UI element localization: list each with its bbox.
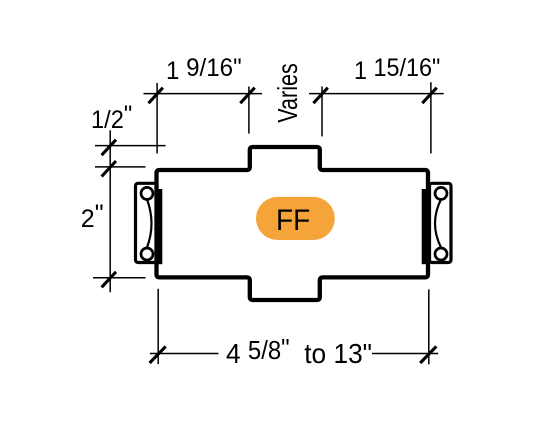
right clip bottom roller (435, 248, 447, 260)
tick mark (240, 88, 254, 104)
tick mark (102, 161, 116, 177)
label: 2" (81, 205, 104, 234)
label: 1 15/16" (354, 57, 440, 86)
wire: extension line right of 1 9/16" (248, 87, 250, 134)
FF highlight pill (256, 197, 335, 240)
right clip bracket outline (430, 183, 452, 262)
tick mark (102, 272, 116, 288)
wire: extension line at body top level (95, 166, 146, 168)
tick mark (149, 88, 163, 104)
tick mark (420, 346, 436, 363)
label: FF (276, 204, 310, 238)
wire: extension line left of 1 15/16" (321, 87, 323, 137)
label: 1 9/16" (166, 57, 242, 86)
left clip top roller (141, 187, 153, 199)
wire: top dimension line for 1 15/16" (309, 93, 444, 95)
wire: bottom left extension line (157, 289, 159, 364)
tick mark (102, 140, 116, 156)
part outline: cross-shaped mounting body (157, 147, 429, 300)
left clip bottom roller (141, 248, 153, 260)
label: Varies (rotated) (272, 63, 304, 123)
tick mark (422, 88, 436, 104)
wire: bottom dimension line right segment (372, 353, 438, 355)
left clip bracket outline (136, 183, 158, 262)
right clip top roller (435, 187, 447, 199)
wire: bottom right extension line (428, 289, 430, 364)
wire: bottom dimension line left segment (150, 353, 219, 355)
left clip spring wire (147, 199, 152, 247)
label: 1/2" (91, 106, 132, 135)
wire: top dimension line for 1 9/16" (144, 93, 263, 95)
right clip bar (422, 189, 430, 264)
tick mark (150, 346, 166, 363)
tick mark (313, 88, 327, 104)
wire: extension line at tab top level (95, 145, 166, 147)
wire: extension line right of 1 15/16" (430, 82, 432, 153)
left clip bar (155, 189, 163, 264)
wire: extension line left of 1 9/16" (156, 83, 158, 154)
wire: extension line at body bottom level (93, 277, 146, 279)
wire: left vertical dimension line (109, 130, 111, 292)
label: 4 5/8" to 13" (226, 338, 372, 370)
right clip spring wire (435, 199, 441, 247)
